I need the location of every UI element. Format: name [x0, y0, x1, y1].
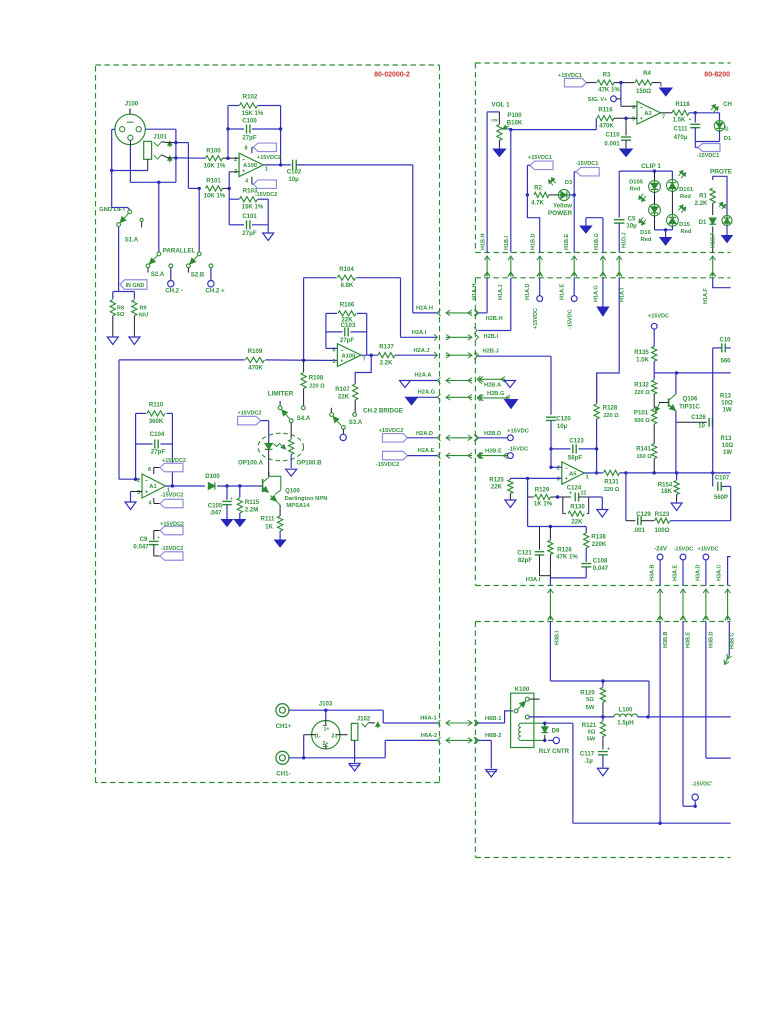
svg-text:80-8200: 80-8200: [704, 72, 730, 79]
svg-text:Q106: Q106: [683, 396, 699, 403]
clip bottom rail: [655, 229, 673, 231]
relay coil: [519, 723, 521, 727]
svg-text:H3B.E: H3B.E: [686, 631, 692, 648]
capacitor C105: [226, 486, 228, 500]
svg-text:100Ω: 100Ω: [654, 527, 669, 534]
svg-text:Red: Red: [680, 194, 691, 200]
svg-text:H2B.D: H2B.D: [484, 431, 501, 437]
svg-text:0.047: 0.047: [593, 565, 609, 572]
svg-text:+15VDC2: +15VDC2: [160, 522, 184, 528]
svg-text:-15VDC: -15VDC: [508, 447, 528, 453]
svg-text:H2A.G: H2A.G: [418, 390, 436, 396]
svg-text:H1B.E: H1B.E: [564, 233, 570, 250]
svg-text:+15VDC1: +15VDC1: [528, 155, 552, 161]
arrow terminator R4: [660, 83, 662, 87]
svg-text:-15VDC2: -15VDC2: [255, 192, 278, 198]
switch S4.A: [279, 401, 281, 406]
svg-text:R9: R9: [140, 306, 147, 312]
resistor R109: [246, 357, 265, 362]
resistor R111: [279, 505, 281, 516]
resistor R104: [338, 275, 356, 280]
svg-text:C101: C101: [242, 213, 257, 220]
svg-text:+: +: [157, 535, 160, 540]
potentiometer P101: [652, 409, 657, 424]
LED D2 protect: [722, 216, 732, 226]
svg-text:−: −: [145, 478, 148, 484]
capacitor C120: [546, 416, 557, 418]
wire XLR pin2 to J101/R100 node: [145, 128, 176, 130]
transistor Q106 TIP31C: [668, 399, 670, 408]
svg-text:R120: R120: [580, 689, 595, 696]
svg-text:-15VDC': -15VDC': [692, 782, 714, 788]
svg-text:SIG. V+: SIG. V+: [588, 97, 607, 103]
wire left rail down to A1 pin2: [118, 360, 120, 479]
svg-text:R128: R128: [603, 405, 618, 412]
svg-text:R137: R137: [379, 344, 394, 351]
binding post CH1-: [276, 751, 289, 764]
svg-text:H3B.C: H3B.C: [730, 632, 736, 649]
wire A100 output: [263, 164, 291, 166]
gap arrows middle-bottom: [549, 589, 551, 620]
svg-text:Red: Red: [641, 237, 652, 243]
svg-text:360K: 360K: [149, 418, 164, 425]
svg-text:H2A.I: H2A.I: [412, 330, 427, 336]
resistor R116: [597, 116, 614, 121]
svg-text:8: 8: [244, 146, 247, 152]
svg-text:15K 1%: 15K 1%: [242, 204, 264, 211]
svg-text:C107: C107: [715, 476, 730, 482]
svg-text:R13: R13: [720, 436, 732, 442]
svg-text:1.5µH: 1.5µH: [617, 720, 633, 727]
LED D105: [649, 181, 661, 193]
svg-text:10Ω: 10Ω: [721, 401, 733, 407]
svg-text:27pF: 27pF: [340, 337, 355, 344]
svg-text:J102: J102: [357, 715, 371, 722]
capacitor C103: [344, 327, 346, 336]
relay K100: [511, 693, 534, 747]
resistor R154: [676, 473, 678, 480]
resistor R103: [239, 197, 257, 202]
svg-text:H2A.A: H2A.A: [414, 373, 431, 379]
svg-text:R109: R109: [248, 348, 263, 355]
svg-text:82pF: 82pF: [518, 557, 533, 564]
wire A5 pin2: [551, 466, 562, 468]
wire node to A2 pin6: [620, 83, 622, 107]
svg-text:C100: C100: [242, 118, 257, 125]
H3A.I exit wire: [550, 577, 586, 579]
LED D101: [667, 180, 679, 192]
wire R137 to H2A.J: [395, 354, 437, 356]
svg-text:H2A.E: H2A.E: [418, 448, 435, 454]
bus to C10x: [654, 372, 731, 374]
svg-text:H2B.A: H2B.A: [484, 383, 501, 389]
svg-text:R108: R108: [309, 375, 324, 382]
wire H1B.H: [486, 112, 488, 253]
svg-text:H2B.I: H2B.I: [484, 334, 499, 340]
resistor R100: [206, 156, 223, 161]
resistor R1: [710, 188, 715, 203]
svg-text:47K 1%: 47K 1%: [556, 554, 578, 561]
gap arrows between modules H2A-H2B: [446, 312, 472, 314]
resistor R120: [602, 681, 604, 687]
capacitor C110: [625, 118, 627, 135]
svg-text:TIP31C: TIP31C: [679, 404, 700, 411]
wire H1B.D: [527, 195, 539, 253]
svg-text:J103: J103: [319, 701, 333, 708]
svg-text:220 Ω: 220 Ω: [603, 413, 619, 419]
svg-text:J101: J101: [153, 134, 167, 141]
feedback loop R106 C103: [326, 312, 337, 314]
svg-text:D1: D1: [724, 136, 731, 142]
svg-text:5W: 5W: [587, 737, 596, 743]
capacitor C102: [292, 160, 294, 171]
svg-text:H1B.D: H1B.D: [531, 233, 537, 250]
wire A1 pin3 to ground: [131, 491, 143, 493]
power flag -15VDC2 (A1 pin4): [153, 498, 155, 504]
svg-text:C121: C121: [517, 550, 532, 557]
svg-text:56pF: 56pF: [568, 455, 583, 462]
svg-text:+: +: [607, 747, 610, 753]
svg-text:500 Ω: 500 Ω: [634, 418, 650, 424]
feedback network R129 C124 R130: [527, 478, 529, 526]
svg-text:10µ: 10µ: [288, 176, 299, 183]
svg-text:2.2M: 2.2M: [245, 507, 259, 514]
svg-text:R4: R4: [643, 70, 651, 77]
svg-text:D9: D9: [552, 727, 560, 734]
svg-text:R100: R100: [206, 148, 221, 155]
svg-text:C123: C123: [569, 438, 584, 445]
svg-text:.1µ: .1µ: [584, 757, 593, 764]
resistor R115: [239, 486, 241, 498]
svg-text:7: 7: [662, 114, 665, 120]
ground R8: [107, 337, 118, 345]
svg-text:PARALLEL: PARALLEL: [163, 248, 196, 255]
resistor R9: [132, 300, 137, 316]
svg-text:A1: A1: [149, 484, 157, 490]
svg-text:220 Ω: 220 Ω: [604, 487, 620, 493]
wire shell to J101 sleeve: [112, 170, 148, 172]
terminal CH.2 +: [209, 264, 213, 268]
wire H1B.E: [573, 172, 575, 253]
svg-text:S2.A: S2.A: [151, 271, 165, 278]
gap arrows top-middle: [486, 256, 488, 277]
svg-text:R110: R110: [149, 402, 164, 409]
svg-text:150 Ω: 150 Ω: [636, 454, 652, 460]
svg-text:Darlington NPN: Darlington NPN: [285, 496, 328, 502]
svg-text:D3: D3: [565, 180, 572, 186]
svg-text:C10: C10: [719, 337, 731, 343]
svg-text:POWER: POWER: [548, 210, 573, 217]
svg-text:10Ω: 10Ω: [722, 443, 734, 449]
svg-text:5Ω: 5Ω: [588, 730, 596, 736]
svg-text:A100: A100: [341, 353, 355, 359]
capacitor C123: [551, 448, 571, 450]
svg-text:1+: 1+: [324, 727, 330, 733]
svg-text:H1B.G: H1B.G: [594, 233, 600, 250]
wire A5 output to R131: [584, 472, 603, 474]
svg-text:R104: R104: [339, 266, 354, 273]
svg-text:H2B.E: H2B.E: [485, 449, 502, 455]
svg-text:2-|: 2-|: [331, 734, 338, 740]
svg-text:1: 1: [586, 475, 589, 481]
power flag -15VDC2 (A100 pin4): [251, 177, 253, 185]
inductor L100: [614, 714, 620, 717]
svg-text:+15VDC2: +15VDC2: [379, 428, 404, 434]
binding post CH1+: [276, 704, 289, 717]
svg-text:H6A-2: H6A-2: [421, 733, 437, 739]
svg-text:S3.A: S3.A: [349, 419, 363, 426]
svg-text:H2A.J: H2A.J: [413, 348, 429, 354]
svg-text:H3A.C: H3A.C: [717, 564, 723, 581]
svg-text:S4.A: S4.A: [297, 415, 311, 422]
svg-text:27pF: 27pF: [242, 230, 257, 237]
svg-text:C105: C105: [208, 503, 223, 510]
ground R111: [275, 540, 286, 547]
svg-text:+15VDC: +15VDC: [698, 547, 719, 553]
wire CH1+ to J103/H6A-1: [289, 709, 383, 711]
svg-text:VOL 1: VOL 1: [491, 102, 510, 109]
svg-text:R131: R131: [604, 479, 619, 486]
resistor R141: [652, 444, 657, 459]
ground arrow C110: [620, 149, 633, 157]
H3A.C wire: [728, 557, 731, 586]
wire R104 to H2A.I: [400, 278, 402, 338]
svg-text:10: 10: [698, 423, 705, 430]
svg-text:18K: 18K: [661, 488, 673, 495]
svg-text:R2: R2: [534, 184, 542, 191]
svg-text:-15VDC2: -15VDC2: [376, 462, 399, 468]
op-amp A100 input stage: [239, 153, 263, 177]
svg-text:-15VDC: -15VDC: [674, 547, 694, 553]
wire R104 row: [304, 277, 337, 279]
svg-text:H3A.I: H3A.I: [526, 577, 541, 583]
wire A5 pin3 net: [510, 477, 561, 479]
protect network: [713, 176, 727, 215]
header H2B.A: [479, 378, 505, 380]
svg-text:10K 1%: 10K 1%: [204, 163, 226, 170]
resistor R107: [353, 384, 358, 400]
svg-text:1K 1%: 1K 1%: [534, 501, 553, 508]
svg-text:22: 22: [581, 491, 587, 497]
opto coupling squiggle: [274, 444, 283, 447]
svg-text:D16: D16: [640, 230, 651, 236]
svg-text:D100: D100: [205, 473, 220, 480]
wire H2B.J to C120: [478, 355, 551, 357]
svg-text:CLIP 1: CLIP 1: [641, 163, 661, 170]
flag IN GND: [120, 280, 147, 290]
svg-text:470K: 470K: [248, 365, 263, 372]
svg-text:+: +: [689, 117, 692, 123]
svg-text:CH: CH: [723, 102, 732, 108]
ground C117: [597, 767, 608, 769]
svg-text:H3A.B: H3A.B: [650, 564, 656, 581]
header H6B-2: [474, 737, 477, 743]
svg-text:1: 1: [265, 166, 268, 172]
svg-text:R125: R125: [489, 476, 504, 483]
svg-text:C5: C5: [628, 216, 636, 223]
wire P100 wiper to R116: [508, 129, 511, 130]
svg-text:H1D.J: H1D.J: [621, 232, 627, 248]
svg-text:R141: R141: [636, 445, 651, 452]
svg-text:R106: R106: [340, 302, 355, 309]
svg-text:7: 7: [363, 357, 366, 363]
resistor R101: [206, 186, 223, 191]
capacitor C129 and resistor R123 row: [625, 473, 627, 521]
wire H3B.B: [659, 622, 661, 824]
svg-text:560P: 560P: [714, 495, 728, 501]
svg-text:+15VDC: +15VDC: [507, 429, 529, 435]
terminal CH.2 -: [169, 264, 173, 268]
capacitor C5: [614, 219, 625, 221]
op-amp A5: [562, 462, 584, 485]
svg-text:0.047: 0.047: [133, 544, 149, 551]
connector J100 (XLR input): [115, 114, 145, 144]
wire H1B.G stub: [586, 217, 603, 219]
svg-text:+: +: [230, 496, 233, 501]
svg-text:A100: A100: [243, 163, 257, 169]
svg-text:R1: R1: [699, 193, 707, 200]
wire C102 to H2A.H: [296, 164, 413, 166]
svg-text:2.2K: 2.2K: [380, 360, 393, 367]
capacitor C108: [581, 563, 591, 565]
svg-text:J100: J100: [125, 101, 139, 108]
svg-text:R102: R102: [243, 94, 258, 101]
svg-text:150Ω: 150Ω: [636, 88, 651, 95]
svg-text:R129: R129: [535, 486, 550, 493]
op-amp A2: [637, 102, 661, 125]
svg-text:H1A.I: H1A.I: [619, 287, 625, 302]
feedback loop R110 C104: [136, 412, 146, 414]
lower rail to R138 C121 R126: [528, 526, 587, 528]
resistor R118: [672, 110, 689, 115]
svg-text:R138: R138: [591, 534, 606, 541]
wire H3B.I to output bus: [549, 622, 551, 682]
diode D1: [709, 218, 716, 224]
svg-text:+: +: [640, 116, 643, 122]
svg-text:+15VDC2: +15VDC2: [162, 458, 186, 464]
potentiometer P100: [487, 111, 499, 113]
svg-text:470K: 470K: [599, 123, 614, 130]
resistor R8: [110, 300, 115, 316]
capacitor C9 with supplies: [154, 530, 160, 532]
svg-text:LIMITER: LIMITER: [268, 391, 294, 398]
feedback loop R102 C100: [227, 106, 229, 159]
svg-text:560: 560: [720, 359, 731, 365]
svg-text:P101: P101: [634, 410, 649, 417]
svg-text:R101: R101: [206, 178, 221, 185]
arrow terminator below OP100.B: [286, 469, 297, 476]
svg-text:R123: R123: [655, 511, 670, 518]
wire R128 branch: [596, 373, 598, 404]
svg-text:R130: R130: [570, 503, 585, 510]
svg-text:C111: C111: [674, 126, 689, 133]
svg-text:K100: K100: [515, 686, 530, 693]
stub J103 pin2-: [340, 734, 348, 736]
wire output to R107: [355, 355, 371, 384]
svg-text:-24V: -24V: [654, 546, 668, 553]
svg-text:cw: cw: [491, 118, 498, 123]
ground R115: [234, 520, 245, 527]
svg-text:D101: D101: [679, 187, 694, 193]
svg-text:4.7K: 4.7K: [531, 199, 544, 206]
wire J102 sleeve to ground: [354, 740, 356, 762]
wire A2 output: [661, 112, 673, 114]
ground C105: [222, 520, 233, 527]
connector J103: [312, 721, 340, 749]
svg-text:A2: A2: [644, 111, 651, 117]
capacitor C10x top right: [721, 343, 723, 352]
resistor R106: [338, 311, 356, 316]
resistor R132: [653, 373, 655, 380]
wire R100 to pin2: [226, 157, 229, 160]
svg-text:0.001: 0.001: [604, 141, 620, 148]
loop R103 C101 on pin3: [229, 198, 239, 200]
svg-text:R103: R103: [243, 188, 258, 195]
resistor R137: [378, 353, 395, 358]
resistor R2: [534, 192, 549, 197]
svg-text:CH.2 +: CH.2 +: [205, 288, 225, 295]
svg-text:S2.B: S2.B: [191, 272, 205, 279]
svg-text:R8: R8: [117, 306, 124, 312]
svg-text:220 Ω: 220 Ω: [634, 390, 650, 396]
svg-text:H3B.D: H3B.D: [709, 631, 715, 648]
svg-text:R135: R135: [634, 349, 649, 356]
power flag -15VDC1: [694, 142, 696, 148]
wire pin3 node: [229, 171, 239, 173]
svg-text:Red: Red: [630, 187, 641, 193]
svg-text:OP100.B: OP100.B: [296, 460, 322, 467]
svg-text:CH.2 BRIDGE: CH.2 BRIDGE: [363, 408, 403, 415]
svg-text:R115: R115: [245, 499, 260, 506]
svg-text:R121: R121: [582, 722, 597, 729]
svg-text:H2B.H: H2B.H: [486, 316, 503, 322]
svg-text:Red: Red: [681, 229, 692, 235]
svg-text:H1B.H: H1B.H: [480, 233, 486, 250]
opto LED OP100.A: [265, 443, 273, 449]
svg-text:H2B.G: H2B.G: [487, 391, 505, 397]
svg-text:5: 5: [332, 359, 335, 365]
LED D15: [671, 191, 673, 214]
svg-text:6.8K: 6.8K: [341, 282, 354, 289]
svg-text:8: 8: [148, 467, 151, 473]
svg-text:R107: R107: [335, 386, 350, 393]
wire R101 node to switch S2.B: [198, 188, 200, 252]
svg-text:-15VDC2: -15VDC2: [161, 546, 184, 552]
transistor Q100 darlington: [262, 479, 264, 492]
svg-text:R132: R132: [634, 381, 649, 388]
clip led network rails: [619, 170, 672, 172]
wire tip row to R101 node: [176, 142, 189, 144]
svg-text:-15VDC: -15VDC: [568, 309, 574, 329]
svg-text:C102: C102: [287, 169, 302, 176]
svg-text:+: +: [242, 168, 245, 174]
svg-text:27pF: 27pF: [151, 449, 166, 456]
capacitor C111: [694, 113, 696, 123]
svg-text:5W: 5W: [586, 705, 595, 711]
switch S2.B: [197, 252, 201, 256]
svg-text:10K 1%: 10K 1%: [204, 193, 226, 200]
capacitor C104: [154, 440, 156, 449]
wire H3B.E to -15VDC': [682, 622, 684, 807]
wire R109 row (pin5 net): [119, 359, 245, 361]
svg-text:CH1-: CH1-: [276, 771, 290, 778]
wire A1 output: [166, 485, 205, 487]
svg-text:−: −: [565, 466, 568, 472]
svg-text:R116: R116: [598, 107, 613, 114]
svg-text:H1A.E: H1A.E: [560, 283, 566, 300]
wire to R8 R9: [113, 291, 135, 293]
svg-text:22K: 22K: [571, 519, 583, 526]
